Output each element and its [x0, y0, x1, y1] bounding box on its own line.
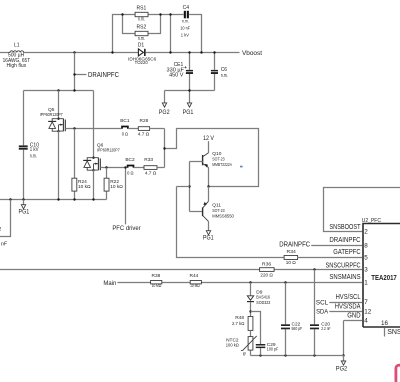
- svg-text:PG1: PG1: [203, 234, 214, 241]
- svg-text:1: 1: [364, 280, 368, 287]
- svg-text:BAS416: BAS416: [256, 295, 270, 301]
- svg-text:BC1: BC1: [120, 118, 130, 124]
- svg-text:16: 16: [381, 320, 389, 327]
- svg-text:SNSBOOST: SNSBOOST: [329, 224, 361, 231]
- wire RS2 branch: [123, 15, 161, 34]
- wire base tie: [188, 162, 202, 212]
- svg-text:10 Ω: 10 Ω: [286, 260, 296, 266]
- svg-text:1 kV: 1 kV: [181, 33, 190, 39]
- fragment label left edge: [0, 227, 8, 247]
- svg-text:n.m.: n.m.: [138, 36, 145, 42]
- svg-text:4.7 Ω: 4.7 Ω: [138, 132, 150, 138]
- bead BC1: [120, 118, 138, 137]
- svg-text:SOT-23: SOT-23: [212, 157, 225, 163]
- ground PG2 under caps: [159, 91, 170, 116]
- wire cap ground: [165, 90, 215, 92]
- resistor R38: [151, 273, 162, 289]
- svg-text:Q10: Q10: [212, 151, 221, 157]
- wire rail exit branch: [0, 200, 11, 237]
- pin 16 net SNSFB: [381, 320, 400, 337]
- svg-text:n.m.: n.m.: [138, 17, 145, 23]
- svg-text:SNSMAINS: SNSMAINS: [329, 274, 360, 281]
- svg-text:SCL: SCL: [316, 299, 329, 306]
- wire gate drive loop: [163, 129, 258, 187]
- svg-text:GND: GND: [347, 313, 360, 320]
- annotation pink box corner: [396, 365, 400, 382]
- svg-text:0 Ω: 0 Ω: [122, 132, 129, 138]
- pin GND 4: [344, 313, 369, 325]
- wire GND to PG2: [342, 321, 344, 357]
- svg-text:12 V: 12 V: [203, 135, 215, 142]
- svg-text:Q11: Q11: [212, 202, 221, 208]
- pin HVS/SDA 12 net SDA: [316, 304, 372, 316]
- wire emitter node: [207, 185, 209, 187]
- ground PG2 bottom: [336, 356, 348, 373]
- svg-text:BC2: BC2: [125, 157, 135, 163]
- wire source rail: [0, 198, 107, 200]
- transistor Q5: [40, 91, 66, 133]
- resistor R24: [72, 129, 91, 200]
- svg-text:DRAINPFC: DRAINPFC: [88, 72, 119, 79]
- diode D1: [128, 43, 157, 66]
- svg-text:4.7 Ω: 4.7 Ω: [145, 171, 157, 177]
- resistor R28: [138, 118, 165, 137]
- capacitor C29: [251, 312, 279, 356]
- wire CE1 column: [189, 53, 191, 91]
- svg-text:4: 4: [364, 318, 368, 325]
- transistor Q11: [203, 187, 234, 222]
- svg-text:MMBT2222A: MMBT2222A: [212, 162, 232, 168]
- resistor RS1: [135, 6, 148, 23]
- wire drain drop: [73, 53, 86, 91]
- wire main boost rail: [0, 52, 240, 54]
- svg-text:SNSFB: SNSFB: [387, 329, 400, 336]
- svg-text:TEA2017: TEA2017: [371, 273, 397, 282]
- wire C4 riser: [170, 15, 172, 53]
- svg-text:8: 8: [364, 243, 368, 250]
- wire base input: [177, 186, 190, 188]
- svg-text:D9: D9: [256, 289, 262, 295]
- wire Q6 gate: [100, 166, 126, 168]
- svg-text:PG1: PG1: [183, 109, 194, 116]
- svg-text:nF: nF: [1, 241, 8, 247]
- svg-text:TO220: TO220: [135, 60, 148, 66]
- svg-text:SOT-23: SOT-23: [212, 208, 225, 214]
- thermistor NTC2: [226, 330, 257, 357]
- resistor RS2: [135, 24, 148, 42]
- svg-text:10 MΩ: 10 MΩ: [152, 283, 162, 289]
- svg-text:7: 7: [364, 299, 368, 306]
- svg-text:L1: L1: [14, 43, 20, 49]
- svg-text:1 kV: 1 kV: [30, 147, 39, 153]
- capacitor C20: [310, 270, 331, 356]
- wire D9 to R48: [249, 302, 251, 316]
- pin SNSCURPFC 3 resistor R36: [0, 261, 368, 278]
- svg-text:HVS/SDA: HVS/SDA: [335, 304, 361, 311]
- pin DRAINPFC 8: [279, 237, 368, 250]
- svg-text:R48: R48: [235, 315, 244, 321]
- svg-text:2: 2: [0, 227, 1, 233]
- wire C10 column: [23, 91, 25, 200]
- wire drain bus top: [24, 89, 94, 91]
- pin SNSMAINS 1 wire: [117, 274, 368, 287]
- net 12 V: [203, 135, 215, 153]
- svg-text:3: 3: [364, 267, 368, 274]
- junction dots sense line: [249, 268, 315, 283]
- capacitor C22: [281, 283, 302, 356]
- svg-text:U2_PFC: U2_PFC: [362, 218, 382, 224]
- wire bottom ground rail: [251, 354, 344, 356]
- svg-text:100 kΩ: 100 kΩ: [226, 343, 239, 349]
- wire SNSBOOST route: [324, 188, 400, 232]
- svg-text:10 kΩ: 10 kΩ: [110, 184, 123, 190]
- transistor Q10: [203, 151, 233, 168]
- svg-text:RS1: RS1: [137, 6, 147, 12]
- svg-text:IPP60R120P7: IPP60R120P7: [40, 112, 63, 118]
- svg-text:Vboost: Vboost: [242, 50, 262, 57]
- resistor R48: [232, 315, 253, 330]
- svg-text:R38: R38: [151, 273, 160, 279]
- svg-text:R36: R36: [262, 261, 272, 267]
- capacitor C4: [180, 5, 190, 39]
- wire C6 column: [214, 53, 216, 91]
- svg-text:100 pF: 100 pF: [267, 346, 279, 352]
- bead BC2: [125, 157, 144, 176]
- svg-text:MMSS8550: MMSS8550: [212, 214, 234, 220]
- resistor R33: [144, 157, 165, 176]
- svg-text:IPP60R120P7: IPP60R120P7: [97, 147, 120, 153]
- svg-text:R28: R28: [139, 118, 148, 124]
- transistor Q6: [83, 91, 120, 172]
- svg-text:SDA: SDA: [316, 309, 329, 316]
- capacitor CE1: [167, 62, 194, 78]
- resistor R44: [189, 273, 201, 289]
- svg-text:2: 2: [364, 229, 368, 236]
- net PFC driver: [112, 166, 140, 232]
- svg-text:PG2: PG2: [159, 109, 170, 116]
- wire snubber top rail: [113, 15, 202, 53]
- svg-text:450 V: 450 V: [169, 72, 184, 78]
- svg-text:n.m.: n.m.: [221, 73, 228, 79]
- svg-text:DRAINPFC: DRAINPFC: [329, 237, 360, 244]
- junction dots boost rail: [73, 13, 215, 91]
- svg-text:560 pF: 560 pF: [292, 326, 303, 332]
- wire Q10 emitter: [208, 168, 210, 187]
- svg-text:n.m.: n.m.: [30, 154, 37, 160]
- svg-text:5: 5: [364, 255, 368, 262]
- svg-text:0 Ω: 0 Ω: [127, 171, 134, 177]
- svg-text:PG2: PG2: [336, 365, 348, 372]
- svg-text:PG1: PG1: [19, 208, 30, 215]
- svg-text:10 nF: 10 nF: [180, 26, 190, 32]
- svg-text:R34: R34: [287, 249, 297, 255]
- svg-text:n.m.: n.m.: [182, 20, 189, 25]
- svg-text:10 MΩ: 10 MΩ: [190, 283, 200, 289]
- svg-text:R33: R33: [144, 157, 153, 163]
- IC U2_PFC box: [362, 218, 400, 327]
- svg-text:Main: Main: [103, 280, 116, 287]
- svg-text:10 kΩ: 10 kΩ: [78, 184, 91, 190]
- svg-text:DRAINPFC: DRAINPFC: [279, 242, 310, 249]
- svg-text:SOD323: SOD323: [256, 300, 270, 306]
- svg-text:D1: D1: [138, 43, 145, 49]
- resistor R22: [104, 168, 123, 200]
- svg-text:R44: R44: [189, 273, 198, 279]
- diode D9: [247, 283, 271, 307]
- svg-text:NTC2: NTC2: [226, 338, 239, 344]
- svg-text:GATEPFC: GATEPFC: [333, 249, 360, 256]
- svg-text:High flux: High flux: [7, 63, 27, 69]
- ground PG1 under Q11: [203, 221, 214, 241]
- svg-text:PFC driver: PFC driver: [112, 225, 140, 232]
- svg-text:θ: θ: [243, 352, 246, 358]
- svg-text:12: 12: [364, 309, 372, 316]
- ground PG1 left: [19, 200, 30, 216]
- svg-text:HVS/SCL: HVS/SCL: [336, 294, 361, 301]
- capacitor C6: [211, 67, 228, 79]
- svg-text:2.7 kΩ: 2.7 kΩ: [232, 321, 245, 327]
- capacitor C10: [19, 142, 39, 159]
- wire Q5 source: [58, 131, 60, 199]
- ground PG1 under CE1: [183, 91, 194, 116]
- inductor L1: [3, 43, 31, 70]
- pin HVS/SCL 7 net SCL: [316, 294, 368, 306]
- svg-text:2.2 nF: 2.2 nF: [321, 326, 330, 332]
- svg-text:SNSCURPFC: SNSCURPFC: [326, 263, 361, 270]
- svg-text:220 Ω: 220 Ω: [260, 273, 273, 279]
- wire GATEPFC route: [177, 187, 285, 258]
- pin GATEPFC 5 resistor R34: [284, 249, 368, 266]
- wire Q6 source: [93, 170, 95, 199]
- wire Q5 gate: [65, 127, 121, 129]
- svg-text:C6: C6: [221, 67, 228, 73]
- artifact blue dash: [240, 166, 243, 168]
- svg-text:RS2: RS2: [137, 24, 147, 30]
- svg-text:C4: C4: [183, 5, 190, 11]
